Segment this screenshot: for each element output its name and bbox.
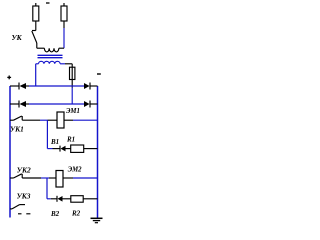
svg-text:R1: R1 [66,136,75,144]
svg-text:УК2: УК2 [17,166,31,175]
svg-text:УК: УК [12,33,23,42]
svg-text:В2: В2 [50,210,60,218]
svg-text:УК3: УК3 [17,191,31,200]
svg-text:ЭМ2: ЭМ2 [68,167,82,174]
svg-text:УК1: УК1 [10,124,24,133]
svg-text:ЭМ1: ЭМ1 [66,108,80,115]
svg-text:R2: R2 [71,209,81,217]
svg-text:В1: В1 [50,138,59,146]
